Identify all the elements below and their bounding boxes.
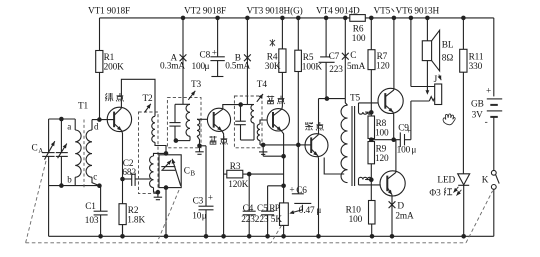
svg-text:1.8K: 1.8K [127,216,145,226]
svg-text:VT2 9018F: VT2 9018F [184,7,226,17]
node tank bottom / wire to ground rail [164,185,169,190]
svg-text:K: K [482,175,489,185]
svg-text:C5: C5 [257,204,268,214]
star footnote mark [270,39,275,46]
svg-text:B: B [190,170,195,178]
svg-text:+: + [289,185,294,195]
svg-text:c: c [93,172,97,182]
svg-text:C7: C7 [329,52,340,62]
resistor R6 [350,15,366,22]
svg-text:D: D [397,201,404,211]
svg-text:100: 100 [397,146,411,156]
svg-text:d: d [94,121,99,131]
svg-text:+: + [208,194,213,204]
wire dashed gang/switch link [26,242,466,244]
svg-text:Φ3: Φ3 [429,188,441,198]
capacitor C6 [297,145,299,194]
wire VT3 emitter link [263,155,283,157]
svg-text:R1: R1 [104,53,115,63]
svg-text:120K: 120K [228,180,249,190]
svg-text:R3: R3 [230,162,241,172]
wire CA to ground rail [48,186,50,237]
svg-text:C: C [32,144,38,154]
capacitor CA tuning gang [48,119,50,152]
svg-text:VT6 9013H: VT6 9013H [396,7,440,17]
node VT5 emitter output [391,137,396,142]
svg-text:J: J [434,75,438,85]
svg-text:682: 682 [122,168,136,178]
wire C9 to jack [410,101,412,140]
svg-text:120: 120 [376,62,390,72]
node test point B / wire rail to T4 [246,18,248,96]
svg-text:100: 100 [352,34,366,44]
svg-text:223: 223 [241,215,255,225]
svg-text:3V: 3V [472,111,484,121]
node R3 right [247,172,252,177]
node T3 secondary bottom [197,144,202,149]
svg-text:C6: C6 [296,186,307,196]
node VT1 base / R1 [97,117,102,122]
wire output node [371,139,400,141]
svg-text:R11: R11 [469,53,484,63]
svg-text:C8: C8 [200,50,211,60]
svg-text:-: - [485,118,488,128]
svg-text:223: 223 [255,215,269,225]
capacitor C7 [325,18,327,57]
LED indicator [458,174,470,185]
svg-text:R6: R6 [353,25,364,35]
resistor R7 [370,18,372,50]
svg-text:μ: μ [202,211,207,221]
transistor VT6 [380,171,405,196]
svg-text:100: 100 [192,62,206,72]
wire speaker to jack moving contact [426,61,428,92]
winding T3 secondary [197,119,200,136]
capacitor C4 [248,174,250,211]
transistor VT2 [207,108,230,131]
winding T5 secondary upper [358,103,360,112]
transistor VT1 [107,107,131,131]
label blue dot above VT3 [268,96,270,98]
svg-text:100: 100 [349,215,363,225]
svg-text:C3: C3 [193,196,204,206]
node T4 ground stub [261,143,266,148]
potentiometer RP volume [280,203,289,226]
svg-text:2mA: 2mA [395,212,414,222]
svg-text:VT5: VT5 [374,7,391,17]
capacitor C5 [268,185,284,187]
svg-text:R5: R5 [303,53,314,63]
node T5 secondary tap upper [369,110,374,115]
svg-text:T3: T3 [191,80,202,90]
node R8/R9 junction [369,137,374,142]
label blue dot under VT2 [210,136,212,138]
node VT1 emitter / C2 [120,177,125,182]
svg-text:8Ω: 8Ω [442,53,454,63]
node CA junctions [59,117,64,122]
node VT4 base [296,143,301,148]
svg-text:330: 330 [469,62,483,72]
svg-text:+: + [212,48,217,58]
resistor R3 [227,170,243,178]
svg-text:b: b [67,175,72,185]
wire VT4 to T5 primary bottom [324,158,344,175]
svg-text:A: A [38,147,43,155]
transistor VT5 [378,88,403,113]
node rail junctions [181,16,186,21]
wire AGC horizontal [249,173,283,175]
node C7 bottom [325,96,330,101]
speaker BL [422,41,431,61]
svg-text:C4: C4 [243,204,254,214]
svg-text:VT1 9018F: VT1 9018F [88,7,130,17]
svg-text:0.3mA: 0.3mA [160,61,185,71]
wire RP wiper from C6 [295,205,302,212]
resistor R10 [369,201,376,225]
wire VT4 collector to T5 [319,98,346,100]
svg-text:200K: 200K [104,63,125,73]
transistor VT4 [305,134,328,157]
capacitor C9 [399,132,401,147]
capacitor C3 [200,145,207,147]
wire bottom ground rail [49,235,494,237]
ground tank [156,190,161,195]
svg-text:30K: 30K [265,62,281,72]
wire VT4 emitter to ground rail [317,156,320,237]
svg-text:a: a [67,121,71,131]
label purple dot [305,122,307,124]
svg-text:100K: 100K [302,63,323,73]
svg-text:R7: R7 [377,52,388,62]
svg-text:C1: C1 [85,202,96,212]
svg-text:LED: LED [437,175,455,185]
capacitor CB oscillator gang section [159,155,181,188]
svg-text:R8: R8 [376,119,387,129]
svg-text:+: + [406,127,411,137]
wire top supply rail [100,17,350,19]
svg-text:C: C [184,166,190,176]
svg-text:R10: R10 [346,205,362,215]
svg-text:100: 100 [375,128,389,138]
node VT2 collector into T4 [238,102,243,107]
node test point D [389,201,396,208]
node ground rail junctions [98,234,103,239]
svg-text:0.5mA: 0.5mA [225,61,250,71]
node T5 secondary tap lower [369,177,374,182]
label green dot (lu dian) [105,93,107,95]
battery GB [493,18,495,97]
svg-text:103: 103 [85,216,99,226]
node test point A / wire rail to T3 [182,18,184,98]
node T3 internal [174,138,179,143]
resistor R11 [462,18,464,49]
winding T4 secondary [257,124,260,141]
hand cursor artifact [443,114,455,125]
svg-text:10: 10 [192,211,202,221]
svg-text:BL: BL [442,40,454,50]
resistor R1 [99,18,101,51]
svg-text:GB: GB [471,100,484,110]
resistor R5 [297,18,299,50]
svg-text:C: C [350,51,356,61]
svg-text:VT4 9014D: VT4 9014D [316,7,360,17]
svg-text:5mA: 5mA [347,62,366,72]
node T1 secondary c junction [97,183,102,188]
winding T2 secondary tank [154,153,167,156]
svg-text:+: + [486,86,491,96]
wire T4 secondary to R5 bottom [260,144,298,146]
svg-text:T4: T4 [257,80,268,90]
resistor R4 [279,49,286,73]
svg-text:5K: 5K [271,215,283,225]
transistor VT3 [267,109,289,131]
svg-text:T1: T1 [78,101,89,111]
capacitor C8 [217,18,219,57]
svg-text:T2: T2 [143,94,154,104]
svg-text:VT3 9018H(G): VT3 9018H(G) [247,6,303,17]
resistor R2 [119,204,126,225]
resistor R8 [368,116,375,139]
node tank top [164,151,169,156]
svg-text:RP: RP [269,204,280,214]
svg-text:T5: T5 [350,93,361,103]
svg-text:223: 223 [329,65,343,75]
wire test point C branch [344,18,346,99]
node VT3 emitter junctions [281,154,286,159]
winding T5 secondary lower [358,180,360,185]
svg-text:μ: μ [205,62,210,72]
LED emission arrows [453,187,458,193]
svg-text:μ: μ [411,146,416,156]
resistor R9 [368,142,375,164]
svg-text:R9: R9 [376,144,387,154]
svg-text:120: 120 [375,154,389,164]
svg-text:0.47: 0.47 [299,206,315,216]
